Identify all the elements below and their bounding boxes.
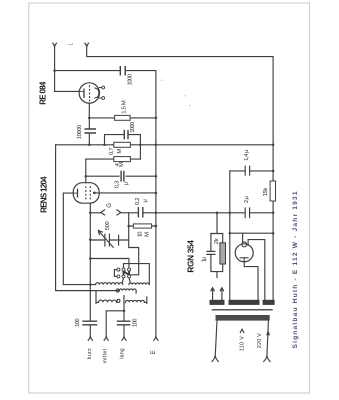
svg-text:L: L <box>69 42 75 45</box>
svg-text:10000: 10000 <box>77 125 83 140</box>
svg-text:RGN 354: RGN 354 <box>185 240 195 273</box>
svg-text:E: E <box>151 350 157 354</box>
svg-text:kurz: kurz <box>87 348 93 359</box>
svg-text:1,4 μ: 1,4 μ <box>244 150 250 161</box>
svg-text:1μ: 1μ <box>202 257 208 263</box>
svg-text:μ: μ <box>143 199 149 202</box>
svg-text:1,5 M: 1,5 M <box>121 100 127 114</box>
svg-text:100: 100 <box>75 318 81 327</box>
svg-text:G: G <box>107 203 113 208</box>
svg-text:500: 500 <box>105 221 111 230</box>
svg-text:100: 100 <box>132 319 138 328</box>
svg-text:1000: 1000 <box>128 74 134 86</box>
svg-text:0,3: 0,3 <box>114 181 120 189</box>
svg-text:220 V: 220 V <box>257 333 263 348</box>
svg-text:M: M <box>117 149 123 154</box>
svg-text:RENS 1204: RENS 1204 <box>39 176 48 213</box>
svg-text:lang: lang <box>120 348 126 359</box>
svg-text:Signalbau Huth - E 112 W - Jah: Signalbau Huth - E 112 W - Jahr 1931 <box>292 191 299 348</box>
svg-text:0,7: 0,7 <box>109 148 115 156</box>
svg-text:M: M <box>145 232 151 237</box>
svg-text:2 μ: 2 μ <box>244 196 250 203</box>
svg-text:1000: 1000 <box>130 122 136 133</box>
svg-text:2k: 2k <box>214 238 220 244</box>
svg-text:0,2: 0,2 <box>135 197 141 205</box>
svg-text:10: 10 <box>138 231 144 237</box>
svg-text:15k: 15k <box>263 188 269 197</box>
svg-text:mittel: mittel <box>103 349 109 364</box>
svg-text:RE 084: RE 084 <box>38 81 47 105</box>
svg-text:μ: μ <box>123 182 129 185</box>
svg-text:M: M <box>119 162 125 167</box>
svg-text:110 V: 110 V <box>240 336 246 351</box>
